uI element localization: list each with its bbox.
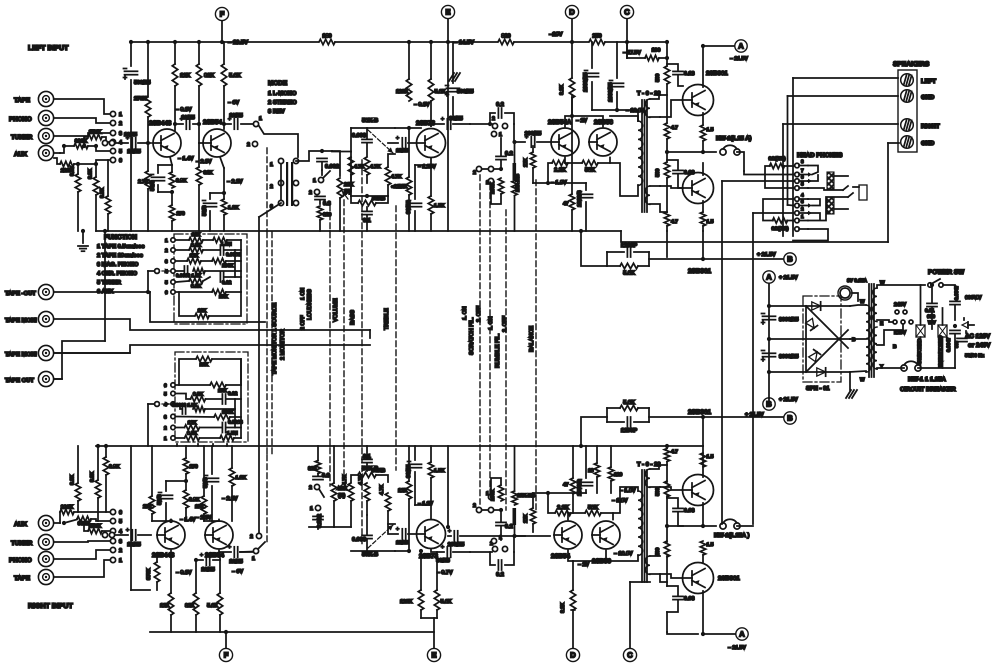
resistor 2.2K b: [555, 510, 571, 515]
wire 3.9K up: [77, 164, 79, 174]
wire eq r1b: [203, 239, 213, 241]
wire gnd spk link: [888, 142, 899, 144]
junction: [625, 40, 629, 44]
junction: [407, 126, 411, 130]
terminal D: [565, 5, 578, 18]
svg-text:12K: 12K: [398, 184, 408, 190]
transformer b core1: [641, 470, 643, 582]
contact sel-L6: [110, 157, 115, 162]
wire left bus: [104, 231, 106, 341]
wire moni1 wire: [54, 319, 370, 330]
wire to 73 base: [388, 142, 398, 144]
capacitor 0.1 b: [362, 458, 372, 460]
svg-text:50/3: 50/3: [203, 478, 209, 489]
svg-text:5.6K: 5.6K: [623, 400, 635, 406]
wire 30/15eb join: [415, 504, 431, 506]
wire eq r3c: [226, 260, 241, 262]
svg-text:50KB: 50KB: [372, 468, 386, 474]
svg-text:T - 0 - 22: T - 0 - 22: [637, 461, 661, 468]
wire TUNERb to c3: [54, 541, 110, 542]
resistor 1.5K b: [428, 462, 433, 478]
svg-text:10/15: 10/15: [127, 149, 141, 155]
wire 270 up: [171, 192, 173, 205]
svg-text:TAPE MONI: TAPE MONI: [5, 317, 37, 324]
svg-text:5: 5: [165, 280, 168, 286]
wire fbb drop: [581, 417, 607, 446]
wire sw fuse up: [920, 285, 922, 325]
wire 27K up: [532, 146, 534, 152]
wire 200/15 out: [537, 141, 550, 143]
wire eq feed: [147, 271, 149, 292]
transformer ps secondary: [866, 305, 870, 372]
resistor 100: [645, 55, 659, 60]
wire auxb-220K: [59, 512, 61, 523]
dashed modeb gang: [266, 455, 268, 545]
contact rumble 2a: [476, 166, 481, 171]
svg-text:LEFT INPUT: LEFT INPUT: [28, 45, 69, 52]
jack AUX: [38, 145, 53, 160]
svg-text:RUMBLE FIL.: RUMBLE FIL.: [495, 333, 501, 368]
svg-text:5.6K: 5.6K: [229, 73, 241, 79]
junction: [570, 114, 574, 118]
wire ground bus mid: [330, 230, 581, 232]
svg-text:31K: 31K: [204, 170, 214, 176]
wire 82K down: [198, 86, 200, 143]
svg-text:0.0068: 0.0068: [226, 252, 241, 258]
svg-text:18: 18: [588, 468, 594, 474]
capacitor 600 line: [957, 337, 967, 339]
wire hp lead 1: [799, 228, 808, 230]
dashed mode gang: [266, 148, 268, 231]
capacitor 50/3 b: [160, 494, 173, 496]
wire x131 up: [130, 42, 132, 66]
wire capb-base: [408, 533, 415, 535]
wire q14 collector: [703, 591, 735, 634]
wire 10Kb left: [179, 359, 196, 385]
terminal B low: [784, 412, 796, 424]
contact sel-L2: [110, 120, 115, 125]
svg-text:1: 1: [499, 132, 502, 138]
equalizer box top: [174, 234, 247, 324]
wire ground bus right: [581, 230, 621, 232]
wire 1.8Kb up: [231, 446, 233, 468]
junction: [146, 290, 150, 294]
wire q4 e: [564, 158, 566, 164]
junction: [429, 40, 433, 44]
wire 5.6Kb2 up: [219, 558, 221, 593]
wire eqb r4: [176, 404, 182, 409]
wire 0.003b up: [366, 515, 368, 535]
wire hp row4: [808, 199, 820, 206]
resistor 15K b: [210, 382, 226, 387]
wire hp lead 9: [799, 165, 808, 167]
wire 1.5b2 dn: [702, 555, 704, 562]
contact wiper b1: [102, 532, 107, 537]
wire fb box right: [648, 252, 650, 266]
wire sec bot: [850, 371, 866, 372]
wire eqb bus: [240, 359, 242, 438]
svg-text:12K: 12K: [190, 253, 199, 259]
wire ground bus right b: [581, 445, 703, 447]
svg-text:7: 7: [801, 168, 804, 173]
wire trebleb frame: [351, 475, 358, 482]
wire gnd vert right: [887, 143, 889, 242]
wire F bottom: [225, 632, 227, 648]
svg-text:1.5: 1.5: [707, 454, 714, 460]
resistor balance lower: [512, 181, 517, 196]
wire 3.9Kc dn: [105, 475, 107, 512]
svg-text:50KB: 50KB: [372, 196, 386, 202]
contact eq-t2: [171, 248, 175, 252]
junction: [546, 491, 550, 495]
junction: [82, 521, 86, 525]
contact eq-t6: [171, 290, 175, 294]
wire 0.13 bot: [678, 75, 683, 86]
wire fb c r: [634, 251, 649, 253]
svg-text:– 16.8V: – 16.8V: [626, 108, 645, 114]
junction: [173, 40, 177, 44]
wire q11 e: [567, 513, 569, 520]
wire 0.2 right: [505, 113, 514, 124]
resistor 4.7K a: [348, 157, 353, 175]
contact eq-t3: [171, 259, 175, 263]
resistor 370K: [154, 562, 159, 582]
wire top rail a: [131, 41, 318, 43]
junction: [419, 549, 423, 553]
svg-text:30/15: 30/15: [436, 558, 450, 564]
capacitor 1000/3: [580, 193, 593, 195]
wire 3.9Ke up: [185, 481, 187, 490]
contact sel c: [909, 320, 913, 324]
capacitor 0.13: [673, 70, 683, 72]
wire 1000/25b up: [616, 42, 618, 78]
wire 1.5t dn: [702, 141, 704, 152]
resistor 250: [589, 39, 605, 44]
svg-text:A: A: [766, 273, 772, 282]
resistor 3.9K: [105, 196, 110, 214]
dashed treble gang: [395, 206, 397, 470]
wire C to 100: [626, 42, 628, 58]
svg-text:0.2: 0.2: [496, 102, 504, 108]
wire balanceb bot: [514, 525, 516, 536]
contact sel-L4: [110, 139, 115, 144]
wire fb out: [649, 258, 703, 260]
resistor 1.5M b: [220, 435, 234, 440]
wire 4.7Kb dn: [366, 175, 368, 183]
dashed volume gang: [343, 200, 345, 480]
wire base top q6: [660, 100, 683, 117]
contact scrb 1: [491, 538, 496, 543]
wire 1.8K dn: [223, 215, 225, 231]
wire 3.3K dn: [95, 195, 97, 231]
wire gnd ps: [849, 372, 851, 390]
wire PHONOb to c2: [54, 550, 110, 559]
wire bass vert: [350, 128, 352, 152]
svg-text:2: 2: [473, 503, 476, 509]
wire prim top: [610, 116, 638, 121]
wire cap to mode: [241, 123, 253, 125]
svg-text:2: 2: [309, 190, 312, 196]
wire eq r1: [176, 239, 189, 241]
wire 50/3 up: [157, 165, 159, 173]
capacitor 0.3 b: [313, 475, 323, 477]
svg-text:TREBLE: TREBLE: [384, 308, 390, 330]
wire balanceb up: [514, 446, 516, 491]
svg-text:2SB361: 2SB361: [688, 268, 712, 275]
svg-text:+ 21.5V: + 21.5V: [779, 275, 798, 281]
wire unsw fuse dn: [942, 337, 944, 368]
svg-text:0.003: 0.003: [352, 133, 366, 139]
jack AUX b: [38, 515, 53, 530]
svg-text:82K: 82K: [185, 603, 195, 609]
junction: [665, 56, 669, 60]
wire 270K up: [147, 42, 149, 96]
wire 0.2 bridge: [490, 113, 495, 124]
wire 0.03b1 bot: [678, 512, 683, 526]
dashed bass gang: [361, 160, 363, 545]
junction: [197, 122, 201, 126]
wire 370K up: [156, 555, 158, 562]
svg-text:6: 6: [164, 383, 167, 389]
contact modeb 2: [256, 533, 261, 538]
wire eq r3: [176, 260, 187, 262]
svg-text:5.6K: 5.6K: [207, 603, 218, 609]
wire 3.9K up2: [171, 165, 173, 172]
wire 150K-contact4: [102, 137, 110, 142]
terminal A top: [735, 40, 747, 52]
svg-text:1: 1: [486, 180, 489, 186]
wire 1000/25a dn: [591, 82, 593, 110]
wire 3.9Ke dn: [185, 508, 187, 521]
wire -9.3 feed: [409, 127, 421, 129]
wire q6 emitter: [702, 113, 704, 125]
fuse NW-1 top: [720, 149, 726, 155]
svg-text:LEFT: LEFT: [921, 78, 936, 85]
svg-text:4.7K: 4.7K: [342, 474, 348, 485]
wire 100Kb up: [491, 478, 501, 494]
junction: [701, 44, 705, 48]
transformer b sec top: [645, 469, 650, 487]
resistor 150K: [88, 134, 102, 139]
wire 12K down: [174, 86, 176, 131]
wire eq r6b: [226, 291, 241, 293]
svg-text:220K: 220K: [61, 505, 74, 511]
wire right spk: [783, 123, 898, 125]
junction: [701, 150, 705, 154]
svg-text:NW-1 1 1.25A: NW-1 1 1.25A: [908, 376, 947, 383]
svg-text:1200P: 1200P: [621, 428, 637, 434]
svg-text:8.2K: 8.2K: [559, 84, 565, 95]
resistor 2.7K: [145, 171, 150, 189]
resistor 3.9K e: [183, 490, 188, 508]
wire E bus: [447, 19, 449, 231]
resistor 10K: [195, 313, 209, 318]
wire eq bus: [240, 240, 242, 292]
svg-text:50/60 Hz: 50/60 Hz: [965, 353, 985, 359]
wire 0.03t top: [667, 160, 678, 170]
wire 12Kc dn: [408, 499, 410, 551]
junction: [222, 122, 226, 126]
wire 82K up: [198, 42, 200, 64]
svg-text:4.7K: 4.7K: [358, 474, 364, 485]
svg-text:+ 21.5V: + 21.5V: [779, 397, 798, 403]
svg-text:10/15: 10/15: [181, 115, 195, 121]
contact eq-b4: [171, 402, 175, 406]
screw GND2: [901, 136, 914, 149]
svg-text:D: D: [569, 8, 575, 17]
wire 27Kc join: [533, 492, 548, 494]
wire rect x2: [806, 330, 848, 372]
wire eqb feed: [147, 404, 149, 446]
wire hp res bot2: [787, 220, 794, 222]
resistor 4.7K c: [385, 167, 390, 185]
wire 50/3 dn: [157, 185, 159, 192]
svg-text:4.7K: 4.7K: [379, 484, 385, 495]
wire 0.1 dn: [366, 215, 368, 231]
svg-text:0.003: 0.003: [352, 537, 366, 543]
wire rect mid: [769, 338, 850, 340]
svg-text:AUX: AUX: [14, 151, 28, 158]
terminal C bottom: [623, 648, 636, 661]
svg-text:10/15: 10/15: [229, 113, 243, 119]
ground slant: [449, 73, 454, 81]
wire 1000/25b dn: [616, 92, 618, 110]
wire 0.03t bot: [678, 174, 683, 188]
wire x667 to A: [667, 632, 698, 634]
contact rumb 2a: [476, 507, 481, 512]
contact mode L1: [278, 158, 283, 163]
svg-text:TAPE MONI: TAPE MONI: [5, 351, 37, 358]
wire rect v: [805, 306, 807, 372]
wire jack line top: [808, 188, 843, 190]
svg-text:8: 8: [801, 159, 804, 164]
capacitor 0.002: [317, 157, 327, 159]
resistor 1.5K eq: [193, 268, 205, 273]
svg-text:1: 1: [119, 558, 122, 564]
contact sel b: [901, 320, 905, 324]
svg-text:1: 1: [486, 491, 489, 497]
transformer ps primary top: [873, 288, 877, 322]
wire capb to base: [138, 534, 151, 536]
wire unsw fuse up: [942, 308, 944, 325]
junction: [499, 167, 503, 171]
svg-text:2SB54: 2SB54: [205, 552, 224, 559]
resistor 12K b: [406, 177, 411, 195]
wire eqb bus2: [234, 399, 236, 428]
junction: [96, 444, 100, 448]
svg-text:0.02: 0.02: [228, 391, 238, 397]
junction: [146, 141, 150, 145]
resistor 180K: [212, 258, 226, 263]
svg-text:20K: 20K: [344, 182, 354, 188]
wire 0.002 dn: [321, 162, 323, 170]
svg-text:– 2V: – 2V: [576, 118, 587, 124]
wire eq r3b: [201, 260, 212, 262]
wire eqb r1c: [234, 437, 241, 439]
svg-text:3: 3: [801, 199, 804, 204]
junction: [184, 479, 188, 483]
svg-text:1: 1: [252, 556, 255, 562]
wire c2 dn: [954, 305, 956, 320]
svg-text:150K: 150K: [89, 524, 102, 530]
wire eqb r2c: [226, 427, 241, 429]
wire out rail x667 c: [666, 139, 668, 162]
wire 100 right: [659, 57, 667, 59]
switch jack top: [843, 186, 848, 190]
svg-text:2. OFF: 2. OFF: [502, 316, 508, 332]
wire hp lead 8: [799, 174, 808, 176]
resistor 31K: [196, 167, 201, 185]
svg-text:4.7K: 4.7K: [391, 174, 402, 180]
wire eq r4b: [205, 270, 241, 272]
wire D to collectors2: [572, 116, 603, 127]
wire scratchb out: [514, 536, 525, 552]
wire breaker out: [918, 367, 955, 369]
resistor 56K b: [585, 510, 601, 515]
screw RIGHT: [901, 119, 914, 132]
wire q9 out: [219, 551, 231, 553]
wire fuse out: [737, 152, 744, 171]
wire 82Kb dn: [195, 615, 197, 632]
wire 1.5Kb up: [430, 446, 432, 462]
wire 30/15e up: [414, 165, 416, 199]
wire sec bot lead: [650, 185, 660, 187]
svg-text:– 9.3V: – 9.3V: [176, 107, 192, 113]
wire eqb stub2: [197, 444, 199, 446]
wire hp res top2: [784, 165, 794, 167]
jack PHONO b: [38, 551, 53, 566]
svg-text:120K: 120K: [400, 599, 413, 605]
wire q2 e2: [223, 168, 225, 199]
svg-text:2SB361: 2SB361: [718, 575, 740, 582]
wire prim sw out: [943, 285, 955, 295]
svg-text:3.3K: 3.3K: [90, 471, 96, 482]
svg-text:560: 560: [655, 168, 661, 177]
capacitor 0.002 b: [313, 515, 323, 517]
wire gnd1 drop: [787, 96, 789, 205]
wire eqb r5b: [206, 398, 223, 400]
svg-text:– 9.7V: – 9.7V: [437, 570, 453, 576]
dashed rumble gang: [489, 184, 491, 494]
wire 50/3b dn2: [165, 503, 167, 521]
svg-text:FUNCTION: FUNCTION: [104, 234, 137, 241]
wire treble frame: [351, 196, 358, 203]
svg-text:820: 820: [308, 466, 317, 472]
diode D3: [809, 350, 821, 362]
svg-text:330K: 330K: [75, 139, 88, 145]
wire x131 bend: [131, 589, 150, 591]
junction: [701, 632, 705, 636]
wire 220K path: [54, 158, 60, 164]
resistor 560 t2: [664, 162, 669, 178]
wire eqb r1b: [200, 437, 221, 439]
wire rail667b d: [666, 556, 668, 586]
switch loudb blade: [319, 489, 324, 497]
wire D to collectors: [565, 116, 572, 127]
capacitor 0.003: [362, 138, 372, 140]
wire hp c3: [788, 204, 795, 207]
svg-text:MODE: MODE: [268, 80, 288, 87]
wire trebleb frame2: [376, 475, 388, 482]
svg-text:56K: 56K: [585, 168, 595, 174]
capacitor 10/15 73b: [401, 529, 403, 539]
wire left spk: [793, 77, 898, 79]
contact headphone 6: [795, 186, 800, 191]
resistor 820 loud: [317, 206, 322, 220]
wire 3.9K dn: [77, 192, 79, 231]
wire 0.2b bridge: [490, 552, 495, 565]
terminal A ps: [763, 271, 775, 283]
